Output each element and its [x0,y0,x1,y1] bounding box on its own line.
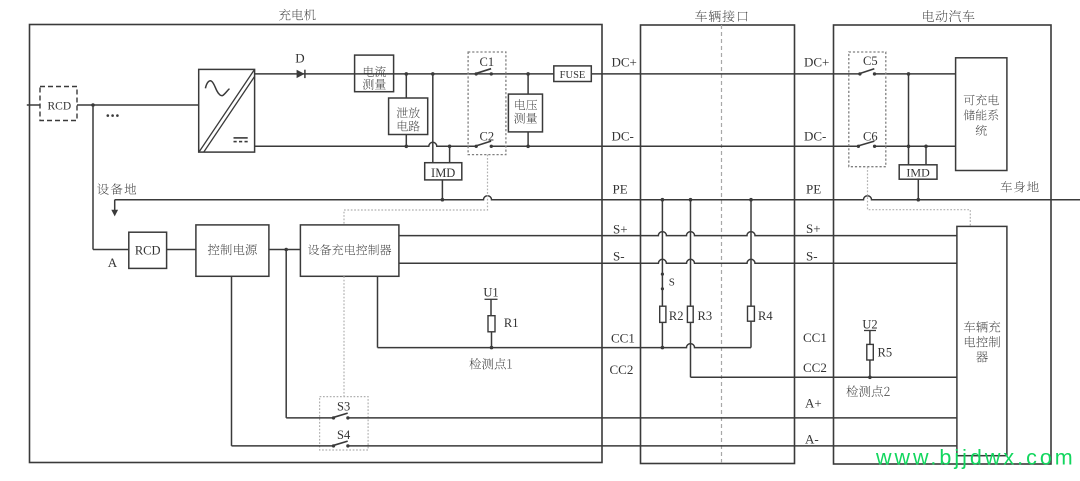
svg-text:R2: R2 [669,309,684,323]
svg-text:S3: S3 [337,399,350,413]
svg-text:PE: PE [806,182,821,197]
svg-text:U2: U2 [862,318,877,332]
svg-text:CC1: CC1 [803,330,827,345]
svg-text:S+: S+ [613,222,628,237]
svg-text:S-: S- [806,249,818,264]
svg-text:DC-: DC- [804,129,826,144]
svg-text:RCD: RCD [135,244,161,258]
svg-text:C2: C2 [480,129,495,143]
svg-text:IMD: IMD [431,166,455,180]
svg-text:A+: A+ [805,396,822,411]
svg-text:R1: R1 [504,316,519,330]
svg-text:IMD: IMD [906,165,930,179]
svg-text:D: D [295,51,304,66]
svg-text:C6: C6 [863,129,878,143]
svg-text:CC1: CC1 [611,331,635,346]
svg-text:C1: C1 [480,55,495,69]
svg-text:DC+: DC+ [804,55,829,70]
svg-text:R4: R4 [758,309,773,323]
svg-text:A: A [108,255,118,270]
svg-text:R3: R3 [698,309,713,323]
svg-text:RCD: RCD [48,101,72,113]
svg-text:www.bjjdwx.com: www.bjjdwx.com [875,446,1076,470]
svg-text:A-: A- [805,432,819,447]
svg-text:S-: S- [613,249,625,264]
svg-text:FUSE: FUSE [560,70,586,81]
svg-text:C5: C5 [863,54,878,68]
svg-text:DC-: DC- [612,129,634,144]
svg-text:CC2: CC2 [803,360,827,375]
svg-text:S: S [669,276,675,288]
svg-text:S4: S4 [337,428,351,442]
svg-text:DC+: DC+ [612,55,637,70]
svg-text:CC2: CC2 [610,362,634,377]
svg-text:S+: S+ [806,221,821,236]
svg-text:U1: U1 [483,286,498,300]
svg-text:R5: R5 [878,346,893,360]
svg-text:PE: PE [613,182,628,197]
